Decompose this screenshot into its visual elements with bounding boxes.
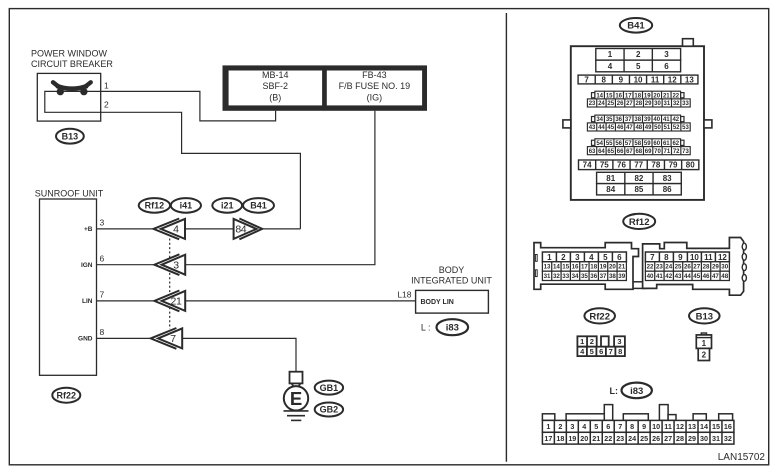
connector oval Rf12	[139, 198, 170, 213]
svg-text:47: 47	[626, 125, 633, 131]
sunroof unit box	[40, 199, 97, 375]
B41 pins 54-62	[592, 140, 595, 145]
B41 pins 63-73	[587, 147, 690, 155]
svg-text:78: 78	[651, 161, 660, 170]
ground ref oval GB2	[315, 403, 343, 417]
connector B41 pinout	[563, 39, 712, 200]
svg-text:32: 32	[673, 101, 680, 107]
svg-text:32: 32	[724, 434, 732, 443]
svg-text:68: 68	[635, 149, 642, 155]
svg-text:BODY LIN: BODY LIN	[421, 299, 454, 306]
svg-text:5: 5	[636, 62, 641, 71]
svg-text:11: 11	[651, 75, 660, 84]
svg-text:44: 44	[598, 125, 605, 131]
inline connector 4 (Rf12/i41)	[154, 219, 186, 240]
B41 pins 34-42	[592, 117, 595, 122]
i83 housing tab	[668, 415, 676, 421]
svg-text:11: 11	[664, 422, 672, 431]
connector oval Rf22 (pinout)	[584, 308, 615, 323]
svg-text:35: 35	[606, 117, 613, 123]
svg-text:11: 11	[704, 253, 713, 262]
B41 top tab	[683, 39, 694, 47]
svg-text:Rf22: Rf22	[589, 311, 610, 322]
wire IGN row	[97, 264, 155, 266]
svg-text:29: 29	[688, 434, 696, 443]
B41 pins 74-80	[579, 160, 699, 170]
inline connector 84 (i21/B41)	[234, 219, 263, 240]
svg-text:2: 2	[590, 337, 594, 346]
Rf12 cap slot	[535, 255, 537, 262]
svg-text:43: 43	[589, 125, 596, 131]
svg-text:LIN: LIN	[82, 298, 93, 305]
svg-text:84: 84	[235, 224, 246, 236]
svg-text:+B: +B	[84, 226, 93, 233]
svg-text:18: 18	[556, 434, 564, 443]
svg-text:MB-14: MB-14	[262, 70, 289, 80]
svg-text:Rf12: Rf12	[145, 201, 165, 211]
svg-text:23: 23	[589, 101, 596, 107]
svg-text:B13: B13	[62, 131, 79, 141]
svg-text:2: 2	[558, 422, 562, 431]
svg-text:7: 7	[170, 333, 176, 345]
svg-text:10: 10	[690, 253, 699, 262]
svg-text:26: 26	[652, 434, 660, 443]
Rf12 pins 22-30	[645, 262, 729, 271]
svg-text:26: 26	[684, 264, 691, 271]
i83 housing tab	[719, 414, 733, 421]
svg-text:25: 25	[607, 101, 614, 107]
svg-text:POWER WINDOW: POWER WINDOW	[31, 49, 107, 59]
svg-text:64: 64	[598, 149, 605, 155]
B41 left tab	[563, 120, 571, 128]
B41 pins 14-22	[592, 93, 595, 98]
svg-text:9: 9	[678, 253, 683, 262]
B41 pins 81-86	[597, 172, 682, 183]
svg-text:LAN15702: LAN15702	[718, 452, 766, 463]
svg-text:63: 63	[589, 149, 596, 155]
ground ref oval GB1	[315, 381, 343, 395]
svg-text:22: 22	[647, 264, 654, 271]
inline connector 7	[151, 328, 183, 349]
svg-text:37: 37	[600, 273, 607, 280]
svg-text:44: 44	[684, 273, 691, 280]
svg-text:65: 65	[607, 149, 614, 155]
svg-text:48: 48	[721, 273, 728, 280]
svg-text:8: 8	[630, 422, 634, 431]
svg-text:67: 67	[626, 149, 633, 155]
svg-text:33: 33	[562, 273, 569, 280]
svg-text:47: 47	[712, 273, 719, 280]
i83 housing tab	[566, 414, 611, 421]
svg-text:IGN: IGN	[81, 262, 93, 269]
svg-text:59: 59	[644, 141, 651, 147]
svg-text:3: 3	[100, 218, 105, 228]
svg-text:1: 1	[104, 80, 109, 90]
svg-text:i83: i83	[630, 386, 643, 397]
svg-text:42: 42	[672, 117, 679, 123]
svg-text:80: 80	[686, 161, 695, 170]
svg-text:49: 49	[645, 125, 652, 131]
svg-text:8: 8	[618, 347, 622, 356]
circuit breaker bimetal element	[53, 82, 91, 95]
svg-text:38: 38	[634, 117, 641, 123]
svg-text:12: 12	[676, 422, 684, 431]
svg-text:31: 31	[663, 101, 670, 107]
svg-text:34: 34	[596, 117, 603, 123]
svg-text:5: 5	[603, 253, 608, 262]
svg-text:4: 4	[173, 224, 179, 236]
Rf12 pins 31-39	[542, 271, 626, 280]
svg-text:1: 1	[702, 339, 707, 348]
svg-text:i41: i41	[180, 201, 193, 211]
svg-text:39: 39	[618, 273, 625, 280]
svg-text:56: 56	[615, 141, 622, 147]
svg-text:13: 13	[688, 422, 696, 431]
Rf12 pins 7-12	[645, 252, 729, 262]
svg-text:L :: L :	[421, 322, 431, 332]
connector B13 pinout	[696, 333, 711, 361]
wire 84 to feed	[257, 228, 300, 230]
svg-text:18: 18	[590, 264, 597, 271]
svg-text:76: 76	[617, 161, 626, 170]
svg-text:30: 30	[700, 434, 708, 443]
svg-text:9: 9	[619, 75, 624, 84]
svg-text:20: 20	[580, 434, 588, 443]
svg-text:37: 37	[625, 117, 632, 123]
svg-text:Rf22: Rf22	[57, 390, 77, 400]
svg-text:29: 29	[645, 101, 652, 107]
svg-text:3: 3	[570, 422, 574, 431]
svg-text:31: 31	[544, 273, 551, 280]
svg-text:72: 72	[673, 149, 680, 155]
svg-text:41: 41	[663, 117, 670, 123]
svg-text:B41: B41	[627, 21, 645, 32]
svg-text:1: 1	[608, 50, 613, 59]
svg-text:21: 21	[618, 264, 625, 271]
svg-text:32: 32	[553, 273, 560, 280]
svg-text:35: 35	[581, 273, 588, 280]
svg-text:54: 54	[596, 141, 603, 147]
ground symbol E	[284, 372, 309, 421]
svg-text:4: 4	[589, 253, 594, 262]
svg-text:3: 3	[617, 337, 621, 346]
connector oval B41	[243, 198, 274, 213]
svg-text:FB-43: FB-43	[362, 70, 387, 80]
svg-text:46: 46	[617, 125, 624, 131]
svg-text:25: 25	[675, 264, 682, 271]
svg-text:34: 34	[572, 273, 579, 280]
i83 housing tab	[604, 405, 612, 421]
Rf12 pins 13-21	[542, 262, 626, 271]
svg-text:51: 51	[663, 125, 670, 131]
connector oval B13 (pinout)	[689, 308, 720, 323]
wire +B row	[97, 228, 154, 230]
svg-text:3: 3	[173, 259, 179, 271]
svg-text:1: 1	[546, 422, 550, 431]
connector oval i21	[212, 198, 242, 213]
svg-text:E: E	[290, 388, 302, 409]
B13 top tab	[701, 333, 706, 335]
i83 housing tab	[659, 405, 668, 421]
svg-text:7: 7	[618, 422, 622, 431]
wire breaker pin2 to B41 connector (+B feed)	[101, 112, 301, 229]
connector oval B13	[56, 129, 84, 144]
svg-text:16: 16	[572, 264, 579, 271]
svg-text:50: 50	[654, 125, 661, 131]
Rf12 pins 40-48	[645, 271, 729, 280]
svg-text:1: 1	[580, 337, 584, 346]
svg-text:27: 27	[626, 101, 633, 107]
svg-text:SBF-2: SBF-2	[263, 81, 289, 91]
svg-text:SUNROOF UNIT: SUNROOF UNIT	[35, 188, 104, 198]
svg-text:24: 24	[628, 434, 636, 443]
svg-text:GB2: GB2	[320, 405, 339, 415]
svg-text:82: 82	[634, 174, 643, 183]
svg-text:F/B FUSE NO. 19: F/B FUSE NO. 19	[339, 81, 411, 91]
svg-text:40: 40	[653, 117, 660, 123]
svg-text:3: 3	[664, 50, 669, 59]
svg-text:22: 22	[604, 434, 612, 443]
svg-text:85: 85	[634, 185, 643, 194]
svg-text:46: 46	[703, 273, 710, 280]
svg-text:B13: B13	[696, 311, 713, 322]
B41 pins 23-33	[587, 99, 690, 107]
svg-text:17: 17	[581, 264, 588, 271]
svg-text:19: 19	[568, 434, 576, 443]
svg-text:(B): (B)	[269, 93, 281, 103]
svg-text:13: 13	[544, 264, 551, 271]
svg-text:86: 86	[663, 185, 672, 194]
svg-text:21: 21	[171, 296, 182, 308]
svg-text:14: 14	[553, 264, 560, 271]
svg-text:60: 60	[653, 141, 660, 147]
svg-text:25: 25	[640, 434, 648, 443]
svg-text:L18: L18	[397, 289, 411, 299]
svg-text:28: 28	[635, 101, 642, 107]
svg-text:GB1: GB1	[320, 383, 339, 393]
label POWER WINDOW CIRCUIT BREAKER	[31, 49, 113, 69]
svg-text:70: 70	[654, 149, 661, 155]
svg-text:9: 9	[642, 422, 646, 431]
svg-text:84: 84	[606, 185, 615, 194]
svg-text:L:: L:	[610, 386, 619, 396]
svg-text:42: 42	[665, 273, 672, 280]
svg-text:74: 74	[583, 161, 592, 170]
B41 right tab	[704, 120, 712, 128]
connector oval Rf12 (pinout)	[623, 214, 655, 229]
inline connector 21	[154, 291, 185, 312]
svg-text:66: 66	[617, 149, 624, 155]
svg-text:2: 2	[636, 50, 641, 59]
connector ref L: i83	[421, 319, 468, 335]
wire LIN row	[97, 300, 155, 302]
connector oval i41	[171, 198, 201, 213]
svg-text:43: 43	[675, 273, 682, 280]
svg-text:6: 6	[617, 253, 622, 262]
svg-text:INTEGRATED UNIT: INTEGRATED UNIT	[411, 275, 492, 285]
svg-text:69: 69	[645, 149, 652, 155]
svg-text:6: 6	[664, 62, 669, 71]
svg-text:8: 8	[100, 327, 105, 337]
svg-text:58: 58	[634, 141, 641, 147]
connector i83 pinout	[542, 405, 734, 445]
svg-text:79: 79	[669, 161, 678, 170]
svg-text:5: 5	[594, 422, 598, 431]
svg-text:45: 45	[607, 125, 614, 131]
wire GND to ground	[182, 338, 296, 371]
svg-text:12: 12	[668, 75, 677, 84]
svg-text:27: 27	[664, 434, 672, 443]
svg-text:2: 2	[104, 100, 109, 110]
svg-text:36: 36	[615, 117, 622, 123]
wire FB-43 to IGN	[185, 111, 375, 265]
connector oval B41 (pinout)	[620, 18, 652, 33]
svg-text:48: 48	[635, 125, 642, 131]
svg-text:8: 8	[664, 253, 669, 262]
svg-text:6: 6	[606, 422, 610, 431]
connector Rf22 pinout	[577, 336, 625, 356]
svg-text:16: 16	[724, 422, 732, 431]
svg-text:39: 39	[644, 117, 651, 123]
svg-text:31: 31	[712, 434, 720, 443]
inline connector 3	[154, 254, 185, 275]
fuse block MB-14 / FB-43	[223, 65, 428, 110]
B41 pins 1-6	[596, 49, 681, 61]
svg-text:81: 81	[606, 174, 615, 183]
dashed connector tie line	[169, 239, 171, 330]
svg-text:CIRCUIT BREAKER: CIRCUIT BREAKER	[31, 59, 113, 69]
svg-text:19: 19	[600, 264, 607, 271]
wire between connectors 4 and 84	[185, 228, 233, 230]
svg-text:B41: B41	[250, 201, 267, 211]
svg-text:7: 7	[609, 347, 613, 356]
svg-text:10: 10	[652, 422, 660, 431]
svg-text:62: 62	[672, 141, 679, 147]
svg-text:26: 26	[617, 101, 624, 107]
svg-text:13: 13	[685, 75, 694, 84]
svg-text:6: 6	[100, 254, 105, 264]
svg-text:2: 2	[561, 253, 566, 262]
svg-text:8: 8	[602, 75, 607, 84]
svg-text:14: 14	[700, 422, 708, 431]
svg-text:24: 24	[665, 264, 672, 271]
svg-text:i83: i83	[446, 323, 459, 334]
svg-text:23: 23	[616, 434, 624, 443]
circuit breaker internal wire	[45, 91, 101, 112]
wire LIN to body integrated unit	[185, 300, 415, 302]
svg-text:73: 73	[682, 149, 689, 155]
svg-text:2: 2	[702, 351, 707, 360]
svg-text:45: 45	[693, 273, 700, 280]
svg-text:40: 40	[647, 273, 654, 280]
connector ref L: i83 (pinout)	[610, 383, 652, 399]
svg-text:52: 52	[673, 125, 680, 131]
svg-text:28: 28	[703, 264, 710, 271]
svg-text:BODY: BODY	[439, 265, 465, 275]
svg-text:(IG): (IG)	[367, 93, 383, 103]
body integrated unit box	[416, 290, 489, 313]
svg-text:15: 15	[712, 422, 720, 431]
svg-text:57: 57	[625, 141, 632, 147]
svg-text:53: 53	[682, 125, 689, 131]
svg-text:GND: GND	[78, 336, 93, 343]
svg-text:3: 3	[575, 253, 580, 262]
svg-text:21: 21	[592, 434, 600, 443]
svg-text:33: 33	[682, 101, 689, 107]
Rf12 cap slot	[535, 270, 537, 277]
svg-text:i21: i21	[221, 201, 234, 211]
svg-text:36: 36	[590, 273, 597, 280]
svg-text:6: 6	[599, 347, 603, 356]
panel divider line	[505, 13, 507, 462]
i83 housing tab	[693, 414, 706, 421]
svg-text:7: 7	[650, 253, 655, 262]
svg-text:5: 5	[590, 347, 594, 356]
svg-text:4: 4	[582, 422, 586, 431]
B41 pins 7-13	[578, 75, 698, 84]
svg-text:23: 23	[656, 264, 663, 271]
svg-text:77: 77	[634, 161, 643, 170]
svg-text:7: 7	[100, 290, 105, 300]
svg-text:1: 1	[547, 253, 552, 262]
svg-text:27: 27	[693, 264, 700, 271]
label BODY INTEGRATED UNIT	[411, 265, 492, 285]
svg-text:29: 29	[712, 264, 719, 271]
Rf12 pins 1-6	[542, 252, 626, 262]
svg-text:83: 83	[663, 174, 672, 183]
svg-text:61: 61	[663, 141, 670, 147]
svg-text:15: 15	[562, 264, 569, 271]
circuit breaker box	[37, 73, 100, 121]
i83 housing tab	[623, 414, 648, 421]
svg-text:24: 24	[598, 101, 605, 107]
i83 housing tab	[542, 414, 554, 421]
svg-text:75: 75	[600, 161, 609, 170]
svg-text:71: 71	[663, 149, 670, 155]
svg-text:4: 4	[608, 62, 613, 71]
svg-text:55: 55	[606, 141, 613, 147]
svg-text:28: 28	[676, 434, 684, 443]
svg-text:30: 30	[721, 264, 728, 271]
B41 pins 43-53	[587, 123, 690, 131]
Rf22 blank cavity	[601, 336, 609, 346]
svg-text:Rf12: Rf12	[629, 217, 650, 228]
wire GND row	[97, 337, 152, 339]
svg-text:41: 41	[656, 273, 663, 280]
svg-text:20: 20	[609, 264, 616, 271]
svg-text:30: 30	[654, 101, 661, 107]
svg-text:7: 7	[584, 75, 589, 84]
connector Rf12 pinout outline	[534, 238, 746, 296]
svg-text:12: 12	[718, 253, 727, 262]
wire breaker pin1 to SBF-2	[101, 91, 276, 121]
connector oval Rf22	[52, 388, 80, 403]
svg-text:38: 38	[609, 273, 616, 280]
svg-text:17: 17	[544, 434, 552, 443]
svg-text:10: 10	[634, 75, 643, 84]
